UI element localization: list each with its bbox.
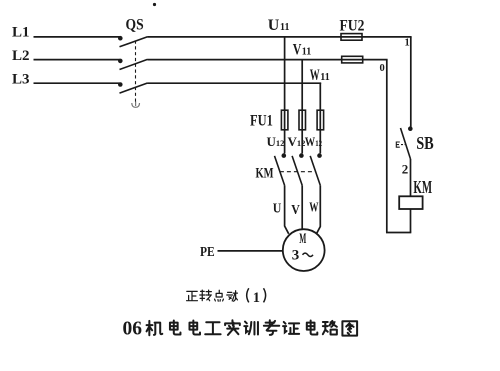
wire motor lead W [317, 185, 321, 233]
svg-text:L3: L3 [12, 72, 30, 88]
svg-text:06: 06 [123, 319, 143, 340]
wire L3 incoming [34, 82, 120, 84]
switch QS pole 2 blade [120, 59, 148, 69]
svg-text:0: 0 [380, 63, 385, 74]
caption paren left [247, 288, 249, 302]
contactor KM pole 2 dot [299, 153, 304, 158]
svg-text:QS: QS [126, 17, 144, 34]
switch QS pole 3 contact dot [118, 82, 123, 87]
title shi [225, 320, 240, 335]
switch QS linkage dashed [135, 41, 137, 103]
wire L2 to corner 0 [148, 59, 388, 61]
caption dian3 [215, 290, 224, 301]
wire bottom return [386, 232, 411, 234]
contactor KM pole 3 blade [310, 156, 320, 186]
fuse FU2 body 1 [341, 34, 362, 41]
wire control line 0 vertical [386, 60, 388, 233]
wire W11 drop [319, 83, 321, 153]
svg-text:L2: L2 [12, 48, 30, 64]
svg-text:PE: PE [200, 244, 215, 259]
wire V11 drop [301, 60, 303, 154]
title lu [323, 321, 337, 335]
contactor KM pole 1 dot [282, 153, 287, 158]
fuse FU1 body 3 [317, 110, 324, 130]
wire motor lead V [301, 185, 303, 229]
svg-text:W: W [310, 65, 320, 83]
wire U11 drop [284, 37, 286, 153]
svg-text:FU2: FU2 [340, 18, 365, 35]
fuse FU2 body 2 [342, 56, 363, 63]
contactor KM pole 3 dot [317, 153, 322, 158]
svg-text:M: M [299, 229, 306, 247]
pushbutton SB blade [401, 128, 411, 159]
svg-text:11: 11 [280, 22, 289, 33]
coil KM body [399, 196, 422, 209]
title dian c [307, 321, 318, 335]
title kao [264, 320, 279, 335]
switch QS handle [132, 102, 140, 108]
svg-text:U: U [268, 17, 280, 34]
contactor KM pole 2 blade [292, 156, 302, 186]
switch QS pole 2 contact dot [118, 59, 123, 64]
motor M1 circle [283, 229, 325, 271]
pushbutton SB top dot [408, 126, 413, 131]
motor tilde [303, 253, 314, 256]
wire L1 to right corner [148, 36, 412, 38]
svg-text:2: 2 [402, 161, 409, 176]
svg-text:KM: KM [413, 179, 432, 198]
svg-text:SB: SB [416, 135, 434, 154]
svg-text:FU1: FU1 [250, 112, 273, 130]
svg-text:11: 11 [302, 47, 311, 58]
caption zheng [187, 291, 198, 300]
caption dong [227, 291, 238, 301]
svg-text:U12: U12 [267, 134, 285, 149]
contactor KM linkage dashed [280, 171, 316, 173]
title zheng4 [283, 322, 299, 334]
title dian b [190, 321, 201, 335]
switch QS pole 1 contact dot [118, 36, 123, 41]
title dian a [170, 321, 181, 335]
svg-text:1: 1 [253, 290, 260, 306]
wire L3 to node W11 [148, 82, 322, 84]
wire coil to bottom [410, 209, 412, 233]
svg-text:V: V [291, 201, 300, 217]
svg-text:1: 1 [405, 38, 410, 49]
wire motor lead U [285, 185, 289, 233]
svg-text:KM: KM [256, 164, 274, 181]
fuse FU1 body 1 [281, 110, 288, 130]
svg-text:W: W [309, 199, 318, 216]
title xun [244, 322, 258, 335]
wire L1 incoming [34, 36, 120, 38]
switch QS pole 3 blade [120, 83, 148, 93]
contactor KM pole 1 blade [275, 156, 285, 186]
caption zhuan [200, 290, 212, 301]
pushbutton SB actuator [396, 142, 400, 147]
wire PE [218, 250, 283, 252]
svg-text:V: V [293, 41, 302, 59]
wire control line 1 vertical [410, 37, 412, 127]
caption paren right [264, 288, 266, 302]
switch QS pole 1 blade [120, 37, 148, 47]
stray dot top [153, 3, 156, 6]
wire SB to coil [410, 159, 412, 196]
fuse FU1 body 2 [299, 110, 306, 130]
svg-text:L1: L1 [12, 25, 30, 41]
title ji [147, 321, 163, 335]
svg-text:U: U [273, 200, 282, 216]
title gong [205, 322, 220, 334]
wire L2 incoming [34, 59, 120, 61]
svg-text:3: 3 [292, 248, 300, 264]
title tu [342, 321, 357, 335]
svg-text:11: 11 [320, 72, 329, 83]
